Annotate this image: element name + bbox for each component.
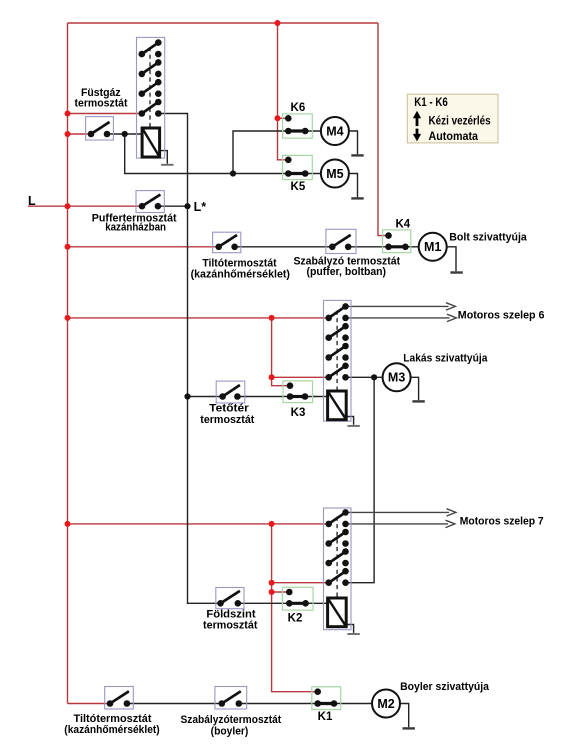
wire: red branch to K6 [278,117,289,119]
svg-text:M4: M4 [326,124,343,138]
wire: K5 to motor M5 [305,173,321,175]
svg-text:(puffer, boltban): (puffer, boltban) [307,266,387,278]
label: Puffertermosztat kazanhazban (S2) [92,212,177,233]
ground: M3 [412,400,424,402]
relay U1 contact 2 [139,59,162,77]
junction: left bus / relay1 C4 feed [65,111,71,117]
relay U3 contact 2 [325,529,348,547]
wire: red right vertical to K4 [378,23,389,236]
relay U1 coil [142,128,160,157]
wire: red drop to K5/K6 [278,23,289,160]
label: Foldszint termosztat (S6) [203,609,258,632]
switch S7 Tiltotermosztat kazanhomerseklet (bottom) [105,687,134,710]
ground: coil U1 [161,164,173,166]
ground: M2 [403,727,415,729]
wire: branch up to K6 row [233,131,288,174]
wire: Tiltotermosztat 1 to Szabalyzo termosztat [235,246,333,248]
wire: red drop to relay 2 C4 and K3 [272,318,290,386]
svg-text:Motoros szelep 6: Motoros szelep 6 [458,310,545,322]
svg-text:M5: M5 [326,167,343,181]
wire: red branch to relay 3 C4 [272,582,329,584]
label: Fustgaz termosztat (S1) [75,87,128,109]
junction: K6 red tap [275,115,281,121]
junction: left bus / Fustgaz feed [65,131,71,137]
arrowhead: valve 7 line B [446,520,455,527]
svg-text:Motoros szelep 7: Motoros szelep 7 [460,516,544,528]
svg-text:K2: K2 [288,613,303,625]
wire: node L feed to Puffertermosztat [28,205,142,207]
relay U1 enclosure (smoke-gas relay, 4 poles + coil) [137,37,165,158]
label: Tiltotermosztat kazanhomerseklet (S7) [64,713,160,736]
wire: K2 to relay coil U3 [306,602,328,604]
legend down arrow: automatic [413,129,421,142]
wire: Tetoter row [188,396,223,398]
wire: M2 to ground [400,704,409,728]
svg-text:Automata: Automata [429,131,479,143]
wire: Szabalyzotermosztat boyler to K1 [239,703,318,705]
wire: Tiltotermosztat 2 to Szabalyzotermosztat boyler [127,703,222,705]
wire: M3 node down to relay3 C4 output [346,377,375,582]
svg-text:K5: K5 [291,181,306,193]
svg-text:K1 - K6: K1 - K6 [414,95,448,109]
node L* junction [184,203,190,209]
junction: M3 input node [371,374,377,380]
junction: left bus / relay2 row [65,315,71,321]
svg-text:K1: K1 [318,711,333,723]
junction: Fustgaz output node [122,131,128,137]
arrowhead: valve 6 line A [446,303,455,310]
svg-text:L*: L* [194,200,207,214]
svg-text:L: L [28,194,36,208]
junction: relay3 C4 row / drop [269,580,275,586]
svg-text:(boyler): (boyler) [211,725,249,737]
relay U2 enclosure (valve 6 relay, 4 poles + coil) [324,300,352,421]
junction: relay3 C1 row / drop [269,521,275,527]
wire: Szabalyzo termosztat to K4 [348,246,388,248]
svg-text:termosztát: termosztát [75,97,128,109]
wire: motorised valve 7 line A [346,511,450,513]
junction: left bus / relay3 row [65,521,71,527]
wire: bus down to K5 row [125,134,289,174]
wire: relay1 C4 output bus down to Foldszint row [158,114,220,604]
svg-text:Boyler szivattyúja: Boyler szivattyúja [400,681,490,693]
switch S1 Fustgaz termosztat [86,117,114,140]
motor M5 [321,160,349,188]
wire: K1 to motor M2 [334,703,372,705]
contact K2 [282,587,313,610]
wire: red branch to K2 [272,591,290,593]
relay U2 mechanical link (dashed) [336,311,338,392]
wire: relay2 C4 to motor M3 [346,376,384,378]
legend up arrow: manual control [413,111,421,126]
contact K6 [283,114,313,138]
wire: K3 to relay coil U2 [305,396,328,398]
svg-text:Szabályzótermosztát: Szabályzótermosztát [180,714,281,726]
svg-text:(kazánhőmérséklet): (kazánhőmérséklet) [191,268,291,280]
junction: Tetoter row tap [184,393,190,399]
wire: M4 to ground [348,131,357,154]
svg-text:termosztát: termosztát [203,620,258,632]
wire: red bottom feed to Tiltotermosztat 2 [68,703,111,705]
contact K5 [283,155,313,179]
wire: red feed to relay 2 contact C1 [68,317,329,319]
wire: red top bus L [68,22,379,24]
relay U1 mechanical link (dashed) [149,47,151,128]
svg-text:termosztát: termosztát [200,414,254,426]
switch S4 Szabalyzo termosztat puffer-boltban [326,229,356,253]
svg-text:Bolt szivattyúja: Bolt szivattyúja [449,231,527,243]
wire: red branch to relay 2 C4 [272,376,329,378]
svg-text:Tetőtér: Tetőtér [209,402,249,414]
svg-text:M2: M2 [377,697,394,711]
wire: Tetoter switch to K3 [237,396,290,398]
wire: M3 to ground [410,377,419,400]
svg-text:M1: M1 [424,240,441,254]
wire: Fustgaz switch to relay coil U1 [107,133,142,135]
wire: red left vertical bus [67,23,69,704]
relay U3 enclosure (valve 7 relay, 4 poles + coil) [324,508,352,630]
wire: K6 to motor M4 [305,130,321,132]
arrowhead: valve 7 line A [447,509,456,516]
wire: M5 to ground [348,174,357,198]
wire: Puffertermosztat output to node L* [158,205,188,207]
arrowhead: valve 6 line B [447,314,456,321]
svg-text:K6: K6 [291,102,306,114]
ground: M5 [351,197,363,199]
wire: red feed to Tiltotermosztat 1 [68,246,219,248]
svg-text:(kazánhőmérséklet): (kazánhőmérséklet) [64,724,160,736]
wire: red feed to relay 3 contact C1 [68,523,329,525]
svg-text:kazánházban: kazánházban [105,222,166,234]
wire: Foldszint switch to K2 [238,602,289,604]
relay U1 contact 4 [139,99,162,117]
ground: M4 [351,154,363,156]
relay U2 contact 3 [325,343,348,361]
wire: coil U1 to ground [160,151,168,164]
label: Szabalyzo termosztat puffer-boltban (S4) [293,255,400,278]
relay U1 contact 1 [139,39,162,57]
svg-text:K3: K3 [291,407,306,419]
switch S3 Tiltotermosztat kazanhomerseklet (top) [213,232,241,253]
svg-text:M3: M3 [388,371,405,385]
ground: coil U3 [347,633,359,635]
switch S8 Szabalyzotermosztat boyler [215,687,247,710]
junction: relay2 C1 row / drop [269,315,275,321]
relay U2 contact 2 [325,323,348,341]
wire: red feed to Fustgaz switch [68,133,92,135]
wire: coil U2 to ground [346,417,353,425]
motor M2 [372,690,400,718]
switch S6 Foldszint termosztat [216,588,244,609]
relay U3 mechanical link (dashed) [336,517,338,599]
junction: left bus / Tiltotermosztat 1 row [65,244,71,250]
relay U1 contact 3 [139,79,162,97]
label: Tiltotermosztat kazanhomerseklet (S3) [191,257,291,280]
junction: K5/K6 bus node [230,170,236,176]
relay U3 contact 3 [325,548,348,566]
wire: M1 to ground [447,247,456,271]
junction: K2 tap [269,589,275,595]
relay U3 contact 4 [325,568,348,586]
contact K3 [283,381,313,403]
relay U2 contact 4 [325,363,348,381]
legend box K1 - K6 [407,94,498,143]
svg-text:Lakás szivattyúja: Lakás szivattyúja [403,353,488,365]
svg-text:Kézi vezérlés: Kézi vezérlés [429,115,491,127]
junction: left bus / node L row [65,203,71,209]
relay U3 contact 1 [325,509,348,527]
relay U3 coil [328,598,347,627]
contact K1 [312,687,341,710]
contact K4 [383,230,411,253]
motor M3 [383,363,411,391]
label: Szabalyzotermosztat boyler (S8) [180,714,281,737]
svg-text:Tiltótermosztát: Tiltótermosztát [74,713,152,725]
relay U2 contact 1 [325,303,348,321]
wire: motorised valve 7 line B [346,523,449,525]
wire: K4 to motor M1 [405,246,419,248]
svg-text:K4: K4 [395,219,410,231]
switch S5 Tetoter termosztat [216,381,245,403]
label: Tetoter termosztat (S5) [200,402,254,426]
relay U2 coil [328,391,347,420]
junction: red top bus / K5-K6 drop [275,20,281,26]
motor M4 [321,117,349,145]
motor M1 [419,233,447,261]
switch S2 Puffertermosztat kazanhazban [136,191,164,213]
wire: motorised valve 6 line B [346,317,450,319]
wire: motorised valve 6 line A [346,305,449,307]
ground: M1 [450,271,462,273]
wire: red feed to relay 1 contact C4 [68,113,142,115]
ground: coil U2 [347,425,359,427]
junction: relay2 C4 row / drop [269,374,275,380]
wire: red drop to relay 3 C4, K2 and K1 [272,524,318,692]
wire: coil U3 to ground [347,625,354,633]
